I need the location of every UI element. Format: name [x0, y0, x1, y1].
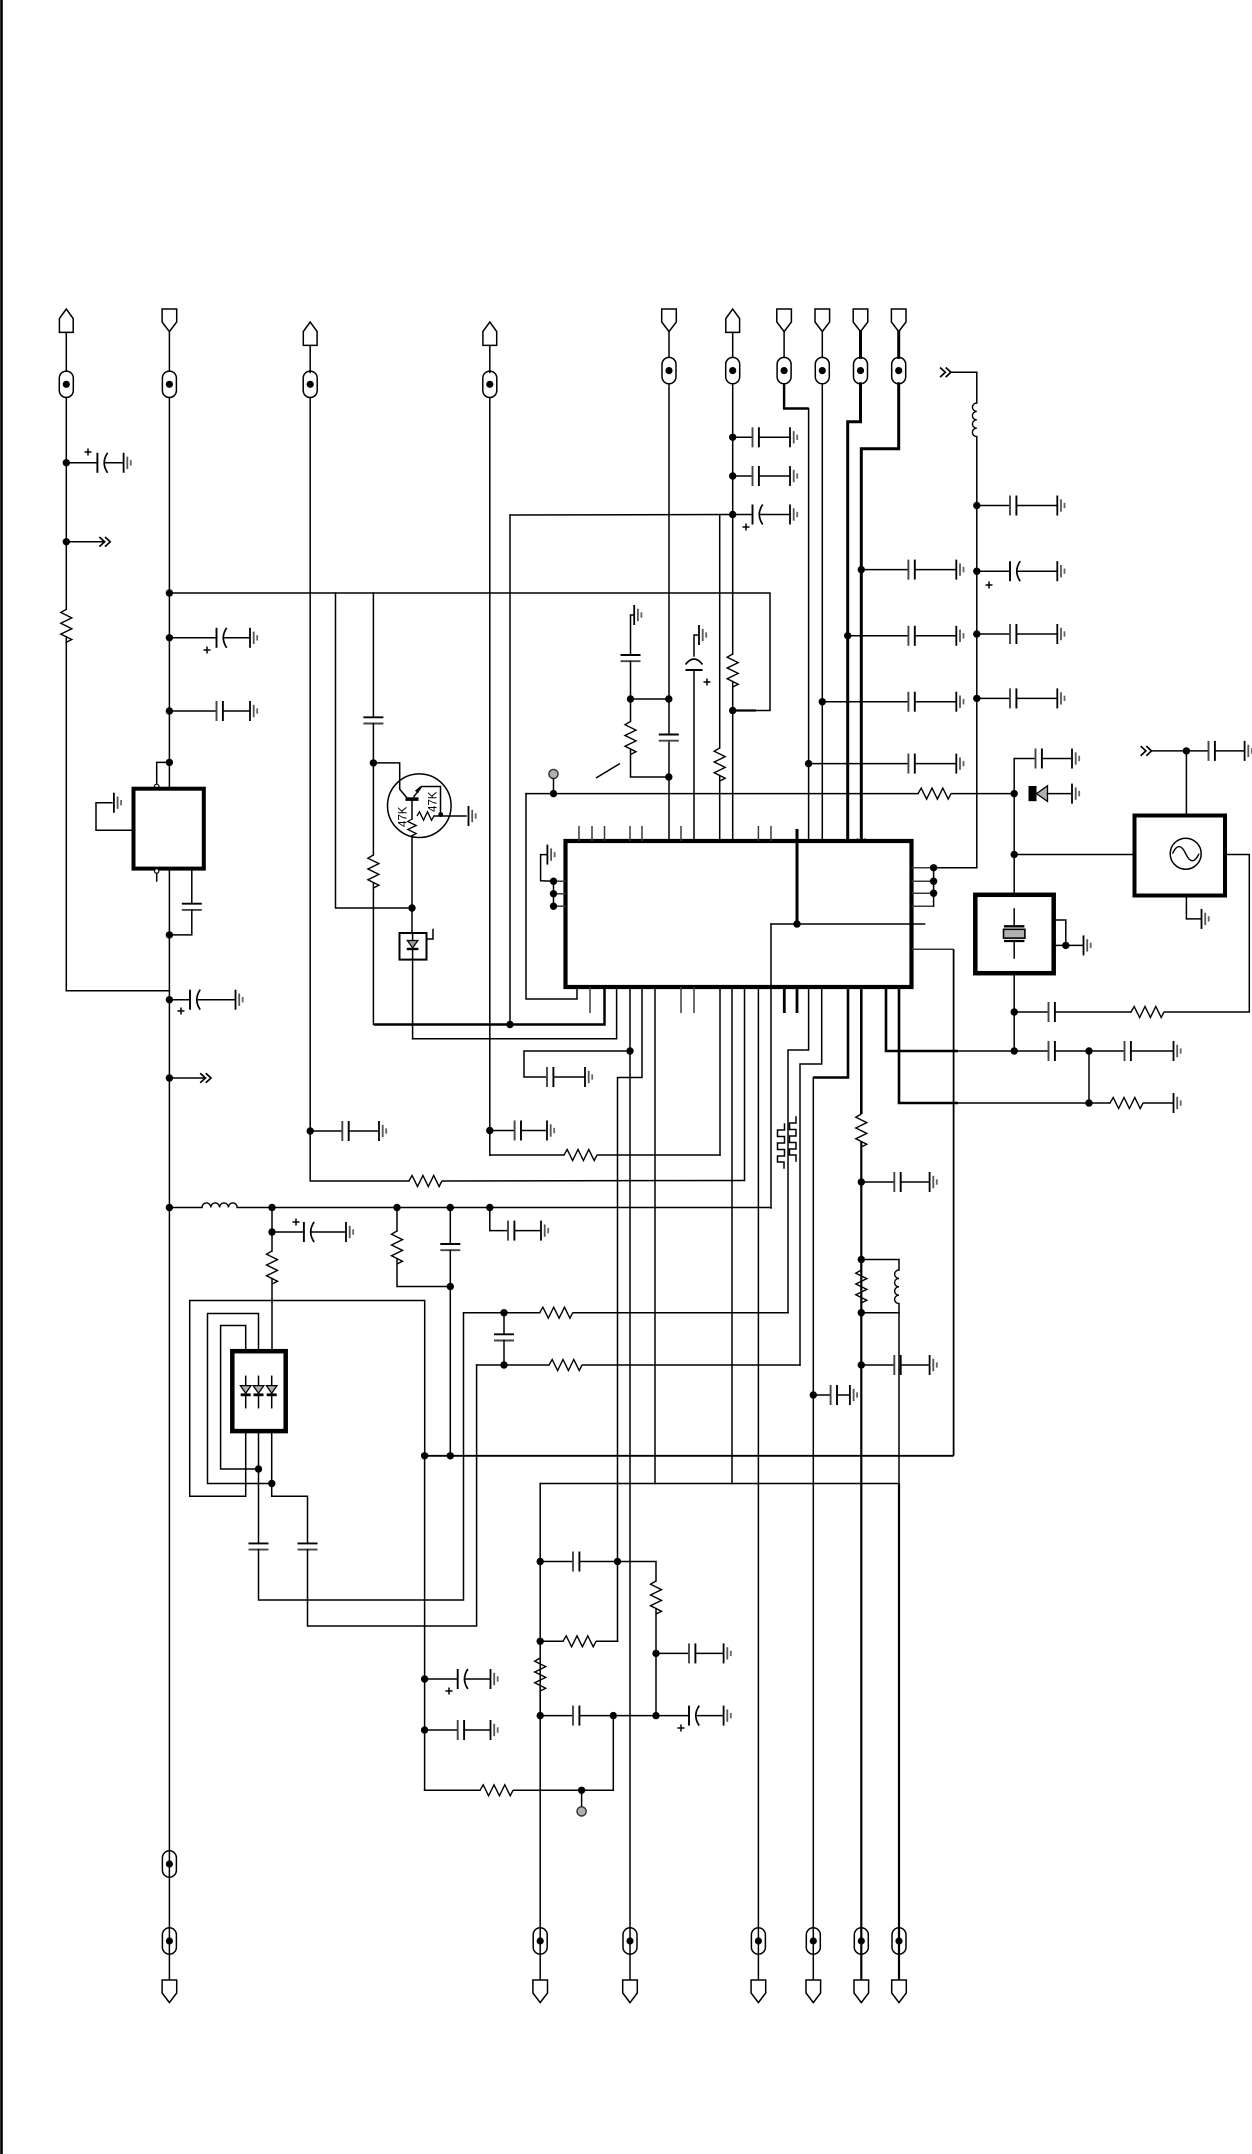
wire: pin 604.5 thick rail y=1024.5 — [374, 987, 605, 1025]
LED module U3 (3 series diodes) — [232, 1351, 285, 1431]
wire: x=784.1 jog right to x=808.6 down to IC — [784, 384, 809, 409]
IC bottom no-connect stubs — [590, 987, 694, 1013]
wire: pin 886 thick to right caps — [886, 987, 958, 1051]
connector P1 (top left, pentagon up) — [59, 309, 73, 332]
IC interior antenna pole — [796, 829, 799, 924]
capacitor C20 + resistor R7 row y=1012 to oscillator right side — [1014, 1011, 1048, 1013]
ferrite bead FB5 — [668, 332, 670, 358]
connector P2 (shield down) — [162, 309, 177, 332]
power rail y=1207.5 with inductor L2 — [166, 1204, 173, 1211]
wire: pin 771 vertical through IC down to rail — [770, 924, 772, 1208]
ferrite bead FB6 — [732, 332, 734, 357]
connector P10 (shield down, thick) — [891, 309, 906, 332]
row y=1312.7 with resistor R15 to meander column x=788 — [464, 1312, 540, 1314]
wire: pin 655 down to y=1483 — [654, 987, 656, 1484]
wire: column x=310 down to corner y=1181 — [310, 398, 409, 1182]
branch x=656 from (617.5,1561.5) with resistor R20 and cap C41 — [618, 1562, 657, 1582]
wire: x=1014 down into crystal, junction to oscillator — [1013, 794, 1015, 895]
wire: pin 861.3 thick with resistor R13 — [860, 987, 863, 1114]
resistor R1 (vertical on x=66) — [61, 609, 72, 642]
branch x=489.8: cap C29 to ground — [490, 1208, 508, 1231]
resistor R2 (vertical on x=732.7) — [727, 654, 738, 687]
off-page arrow to inductor (top right) — [940, 368, 951, 378]
bottom connector J4 (x=758.4) — [751, 1928, 765, 1954]
capacitor C19 to ground above diode — [1014, 759, 1035, 794]
wire: column x=822.3 to IC top — [821, 384, 823, 841]
IC top no-connect stubs — [579, 826, 771, 841]
wire: x=66 down to y=990.7 then right to x=169 — [66, 637, 169, 991]
capacitor C2 electrolytic to ground at (169.4,637.8) — [166, 634, 173, 641]
ferrite bead FB8 — [821, 332, 823, 358]
junction x=169 y=593 — [166, 589, 173, 596]
wire: pin 744.5 down to y=1180 — [744, 987, 746, 1180]
U1 bottom pin bubble and stub — [155, 869, 159, 873]
wire: loop A from module pin 245.7 bottom around to x=424.6 — [190, 1301, 425, 1497]
wire: net row y=1455.8 from x=424.6 to x=953.6 — [425, 1455, 954, 1457]
bottom connector J7 (x=899) — [892, 1928, 906, 1954]
resistor R4 on x=630.5 — [625, 722, 636, 755]
wire: x=373.4 branch from y=593 with series cap C18 — [372, 593, 374, 717]
wire: net y=793.6 with loop to IC pin 577 — [526, 794, 577, 999]
wire: net y=593 from x=169 to corner x=770 down to junction (732.7,710.5) — [169, 593, 770, 711]
capacitor C7 electrolytic to ground on x=732.7 at y=514.5 — [729, 511, 736, 518]
bottom connector J2 (x=540.2) — [533, 1928, 547, 1954]
oscillator box OSC1 — [1135, 816, 1226, 896]
oscillator bottom ground — [1186, 896, 1200, 919]
wire: column x=732.7 to IC top with resistor — [732, 384, 734, 654]
bottom connector J6 (x=861.3) — [854, 1928, 868, 1954]
capacitor C9 electrolytic to ground on x=976.8 y=571.2 — [973, 568, 980, 575]
capacitor C25 to ground at (310.2,1131) — [307, 1127, 314, 1134]
wire: x=335.5 branch from y=593 down to (412.6,908) — [336, 593, 413, 908]
wire: pin 630 full column to bottom connector — [629, 987, 631, 1980]
capacitor C15 to ground on x=808.6 y=763.6 — [805, 760, 812, 767]
branch x=450.3: series cap C28 down to row y=1456 — [449, 1208, 451, 1245]
wire: x=899 down to row 1483 and bottom connector — [898, 1313, 900, 1484]
junction on x=732.7 at y=710.5 — [729, 707, 736, 714]
wire: module pin 258.5 bottom with series cap C33 to row y=1600 — [258, 1431, 260, 1543]
diode D4 — [266, 1376, 277, 1407]
ferrite bead FB3 — [309, 345, 311, 372]
connector P6 (pentagon up) — [726, 309, 740, 332]
off-page arrow and capacitor C21 feeding oscillator top — [1185, 751, 1187, 816]
off-page arrow at (169.4,1078) — [166, 1074, 173, 1081]
connector P5 (shield down) — [662, 309, 677, 332]
parallel R14 / L3 tank between (861.3,1259.5) and (861.3,1312.7) — [858, 1256, 865, 1263]
test point TP1 — [549, 769, 558, 778]
inductor L1 (vertical on x=976.8) — [972, 403, 976, 437]
wire: net row y=1483.5 from x=540.2 to x=899 — [540, 1483, 899, 1485]
resistor R19 on x=540.2 — [535, 1658, 546, 1691]
ferrite bead FB10 — [897, 332, 900, 358]
wire: thick jog x=860.5 to x=847.7 down to IC — [848, 384, 861, 841]
wire: pin 808.6 jog to x=788 with EMI meander — [788, 987, 809, 1313]
wire: column x=669 to IC top — [668, 384, 670, 735]
capacitor C3 to ground at (169.4,711) — [166, 707, 173, 714]
wire: module pin 271.7 bottom with series cap C34 to row y=1626 — [272, 1431, 308, 1543]
wire: pin 848 thick jog to x=813.3 column to bottom connector — [813, 987, 848, 1078]
photocoupler LED box — [411, 908, 413, 933]
wire: junction (630,1051) spur to cap C24 — [524, 1051, 630, 1077]
wire: x=1089 link down to y=1103 row — [1088, 1051, 1090, 1103]
resistor R10 row y=1181 from x=310 to IC pin 744.5 — [409, 1176, 442, 1187]
IC interior wire y=924 to right stub — [771, 923, 925, 925]
wire: pin 642 jog to x=617.5 long column — [618, 987, 643, 1641]
bottom connector J1 (x=169.4) with extra bead — [162, 1851, 176, 1877]
connector P4 (pentagon up) — [483, 322, 497, 345]
resistor R8 to ground row y=1103 — [1089, 1102, 1110, 1104]
capacitor C13 to ground on x=847.7 y=635.8 — [844, 632, 851, 639]
svg-text:47K: 47K — [428, 791, 440, 812]
capacitor C39 row y=1715.6 with elcap C40 to ground — [537, 1712, 544, 1719]
resistor R6 in series y=793.6 — [918, 788, 951, 799]
wire: pin 720 down to y=1155 — [719, 987, 721, 1155]
connector P7 (shield down, thick net) — [777, 309, 792, 332]
crystal case ground stubs — [1054, 920, 1066, 945]
bottom connector J3 (x=630) — [623, 1928, 637, 1954]
connector P9 (shield down, thick) — [853, 309, 868, 332]
IC right stub y=949.3 down the side — [912, 948, 954, 950]
ferrite bead FB7 — [783, 332, 785, 358]
wire: arrow to x=976.8 column — [952, 372, 977, 403]
capacitor C37 to ground at (424.6,1730) — [421, 1726, 428, 1733]
wire: column x=169 from U1 bottom to bottom connector — [168, 869, 170, 1980]
off-page arrow at (66.3,541.8) — [63, 538, 70, 545]
wire: link (630.5,699) to (668.8,699) — [631, 698, 669, 700]
junction x=169 y=934.9 — [166, 931, 173, 938]
wire: column x=169 from bead to U1 top — [168, 398, 170, 789]
ferrite bead FB2 — [168, 332, 170, 372]
wire: x=424.6 column down to y=1790 — [424, 1456, 426, 1791]
capacitor C5 to ground on x=732.7 at y=437.3 — [729, 434, 736, 441]
wire: net y=514.5 from corner (510,515) to x=732.7 — [510, 514, 733, 517]
capacitor C38 between x=540.2 and x=617.5 at y=1561.5 — [537, 1558, 544, 1565]
capacitor C14 to ground on x=822.3 y=701.7 — [819, 698, 826, 705]
capacitor C1 electrolytic to ground at (66.3,462.8) — [63, 459, 70, 466]
capacitor C12 to ground on x=861.3 y=569.6 — [858, 566, 865, 573]
capacitor C18 (vertical series) — [363, 717, 383, 723]
wire: crystal bottom to junction (1014,1012) — [1013, 973, 1015, 1012]
wire: loop B from module top pin 258.5 to (271.8,1483.5) — [208, 1314, 272, 1484]
ground-elcap chain at x=694 to IC pin — [694, 635, 699, 656]
wire: pin 732 down to y=1483 — [731, 987, 733, 1484]
capacitor C8 to ground on x=976.8 y=505.5 — [973, 502, 980, 509]
ground for U1 left pin — [114, 793, 121, 813]
IC U2 (main processor box) — [566, 841, 912, 987]
wire: loop C from module top pin 245.7 to (258.5,1469) — [221, 1326, 259, 1470]
electrolytic C36 to ground at (424.6,1679) — [421, 1675, 428, 1682]
capacitor C31 to ground at (861.3,1365) — [858, 1361, 865, 1368]
wire: pin 616.6 to y=1038.8 left — [413, 987, 617, 1039]
capacitor C4 electrolytic to ground at (169.4,999.7) — [166, 996, 173, 1003]
ground on IC left pins — [547, 845, 554, 865]
capacitor C32 to ground at (813.3,1395) — [810, 1391, 817, 1398]
capacitor C17 in series on x=668.8 — [659, 735, 679, 741]
bottom connector J5 (x=813.3) — [806, 1928, 820, 1954]
switch slash mark — [596, 764, 620, 779]
transistor Q1 (digital transistor with built-in 47K resistors) — [388, 774, 452, 838]
wire: pin 758.4 full column to bottom connector — [757, 987, 759, 1980]
ground-capacitor chain at x=630 (gnd, cap, junction, resistor) — [631, 615, 634, 655]
ferrite bead FB1 — [65, 332, 67, 371]
resistor R9 row y=1155 from x=489.8 to IC pin 720 — [490, 1154, 564, 1156]
diode D1 to ground — [1029, 786, 1037, 801]
wire: x=540.2 column from y=1483.5 to bottom connector — [539, 1484, 541, 1981]
resistor R5 on x=373.4 — [368, 855, 379, 888]
wire: column x=489.8 down to corner y=1155 — [489, 398, 491, 1156]
wire: pin 821.7 jog to x=800 with EMI meander — [800, 987, 822, 1365]
svg-text:47K: 47K — [398, 806, 410, 827]
crystal X1 box — [975, 895, 1053, 973]
connector P3 (pentagon up) — [303, 322, 317, 345]
capacitor C30 to ground at (861.3,1182) — [858, 1178, 865, 1185]
row y=1365 with resistor R16 to meander column x=800 — [477, 1364, 549, 1366]
capacitor C10 to ground on x=976.8 y=634 — [973, 630, 980, 637]
branch x=272: elcap C27 and resistor R11 to LED module — [271, 1208, 273, 1233]
wire: x=510 vertical down to junction y=1024.5 — [509, 515, 511, 1025]
wire: branch x=719.7 down with resistor R3 to IC top — [719, 515, 721, 749]
capacitor C6 to ground on x=732.7 at y=476 — [729, 472, 736, 479]
capacitor C11 to ground on x=976.8 y=698.4 — [973, 695, 980, 702]
wire: x=976.8 down to IC stub row — [934, 437, 977, 868]
diode D3 — [253, 1376, 264, 1407]
wire: thick jog x=898.7 to x=861.3 down to IC with arrowhead — [861, 384, 898, 841]
resistor R18 between x=540.2 and x=617.5 at y=1641.3 — [537, 1638, 544, 1645]
diode D2 — [240, 1376, 251, 1407]
capacitor C35 between the two rows at x=504 — [503, 1313, 505, 1335]
branch x=397: resistor R12 down to (450,1286.5) — [396, 1208, 398, 1232]
IC right stubs to x=933.6 link — [912, 868, 934, 906]
capacitor C26 to ground at (489.8,1130.5) — [486, 1127, 493, 1134]
wire: pin 899 thick to right resistor row — [899, 987, 958, 1103]
resistor R3 — [714, 748, 725, 781]
IC U1 (regulator box) — [134, 789, 204, 869]
connector P8 (shield down) — [815, 309, 830, 332]
wire: hook from (169.4,762.4) to U1 pin bubble — [166, 759, 173, 766]
page left border line — [0, 0, 3, 2154]
ferrite bead FB4 — [489, 345, 491, 372]
wire: junction (1014.9,1051) row with caps C22 C23 to ground — [1013, 1012, 1015, 1051]
wire: net VCC1 column x=66 — [65, 398, 67, 610]
capacitor C16 (vertical) from U1 bottom pin x=191.8 — [191, 869, 193, 904]
resistor R17 row y=1790 with test point TP2 — [425, 1789, 480, 1791]
ferrite bead FB9 — [859, 332, 862, 358]
